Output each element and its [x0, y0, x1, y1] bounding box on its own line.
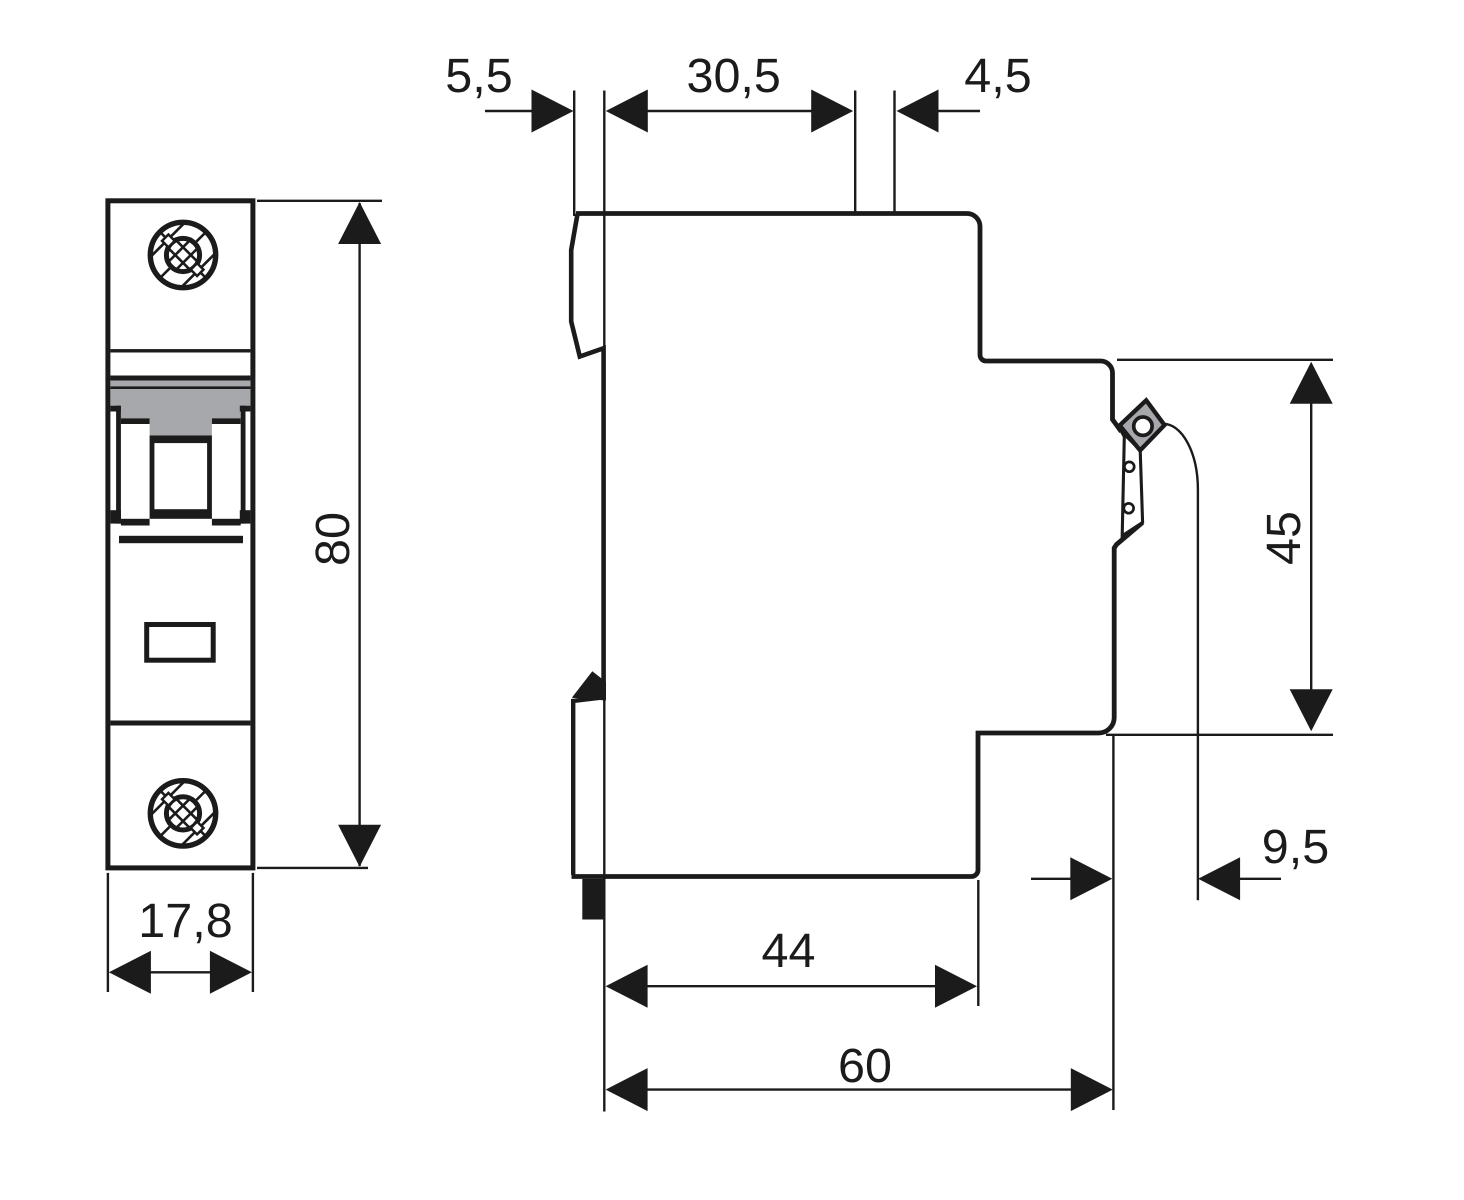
extension line x855 — [854, 91, 856, 213]
svg-text:30,5: 30,5 — [686, 49, 780, 103]
dim 45 dimension line — [1310, 364, 1312, 729]
svg-text:60: 60 — [838, 1039, 892, 1093]
DIN clip foot (black) — [582, 879, 604, 920]
dim 17,8 left extension line — [107, 873, 109, 992]
dim 60 dimension line — [647, 1088, 1072, 1090]
dim 80 up arrow — [338, 202, 381, 244]
dim 60 right extension line — [1112, 736, 1114, 1110]
dim 17,8 right extension line — [252, 873, 254, 992]
dim 5,5 arrow — [532, 90, 574, 133]
toggle recess gray area — [110, 381, 250, 436]
dim 4,5 tail line — [938, 110, 980, 112]
separator line C (above bottom terminal block) — [110, 721, 250, 726]
separator line A (thin, below top terminal block) — [110, 349, 250, 352]
dim 30,5 dimension line — [646, 110, 812, 112]
thin line across gray recess — [110, 386, 250, 389]
dim 17,8 dimension line — [149, 971, 212, 973]
svg-text:5,5: 5,5 — [445, 49, 512, 103]
svg-text:4,5: 4,5 — [964, 49, 1031, 103]
dim 5,5 tail line — [485, 110, 533, 112]
label window — [147, 625, 214, 661]
dim 80 dimension line — [358, 203, 360, 866]
clip bracket plate — [1121, 431, 1142, 536]
DIN clip spring tip (black) — [572, 671, 606, 700]
dim 44 right extension line — [977, 880, 979, 1006]
left column top cap — [121, 418, 150, 424]
side body rear upper flap — [571, 214, 603, 697]
dim 80 top extension line — [257, 200, 382, 202]
dim 44 left arrow — [606, 965, 648, 1008]
dim 45 bottom extension line — [1106, 734, 1333, 736]
dim 45 up arrow — [1290, 362, 1333, 404]
dim 9,5 left tail line — [1031, 878, 1071, 880]
right column bottom cap — [212, 519, 241, 526]
left recess wall line — [116, 406, 121, 524]
recess bottom line — [119, 536, 243, 543]
dim 17,8 right arrow — [210, 951, 252, 994]
left slot bottom cap — [110, 510, 121, 523]
clip swing arc + 9,5 extension line — [1163, 424, 1198, 901]
extension line x574 — [573, 91, 575, 217]
dim 9,5 right arrow — [1198, 857, 1240, 900]
dim 9,5 left arrow — [1070, 857, 1112, 900]
dim 80 down arrow — [338, 825, 381, 867]
dim 45 top extension line — [1117, 359, 1333, 361]
left column bottom cap — [121, 519, 150, 526]
right slot bottom cap — [240, 510, 251, 523]
side body main outline — [576, 214, 1121, 432]
svg-text:9,5: 9,5 — [1262, 820, 1329, 874]
right slot top cap — [240, 406, 251, 412]
top terminal screw — [143, 215, 223, 295]
dim 44 right arrow — [935, 965, 977, 1008]
svg-text:45: 45 — [1257, 511, 1311, 565]
dim 30,5 left arrow — [606, 90, 648, 133]
bottom terminal screw — [143, 773, 223, 853]
toggle handle (black frame) — [150, 435, 212, 518]
svg-text:17,8: 17,8 — [138, 894, 232, 948]
bracket rivet hole 2 — [1124, 503, 1134, 513]
dim 60 right arrow — [1071, 1068, 1113, 1111]
dim 30,5 right arrow — [811, 90, 853, 133]
right column top cap — [212, 418, 241, 424]
dim 17,8 left arrow — [109, 951, 151, 994]
side body lower front outline — [572, 523, 1143, 877]
clip release diamond — [1120, 400, 1165, 450]
dim 4,5 arrow — [897, 90, 939, 133]
svg-text:44: 44 — [762, 924, 816, 978]
diamond hole — [1134, 417, 1152, 435]
dim 60 left arrow — [606, 1068, 648, 1111]
left slot top cap — [110, 406, 121, 412]
dim 9,5 right tail line — [1240, 878, 1281, 880]
dim 80 bottom extension line — [257, 867, 368, 869]
bracket rivet hole 1 — [1124, 462, 1134, 472]
svg-text:80: 80 — [306, 512, 360, 566]
extension line x894 — [893, 91, 895, 213]
right recess wall line — [241, 406, 246, 524]
separator line B (thick, top of toggle recess) — [110, 376, 250, 381]
toggle handle face (white) — [154, 443, 207, 509]
dim 45 down arrow — [1290, 689, 1333, 731]
extension line x604 (long, left of side view) — [603, 91, 605, 1112]
dim 44 dimension line — [647, 985, 936, 987]
front view body outline — [108, 201, 253, 868]
DIN clip strip — [573, 697, 604, 875]
